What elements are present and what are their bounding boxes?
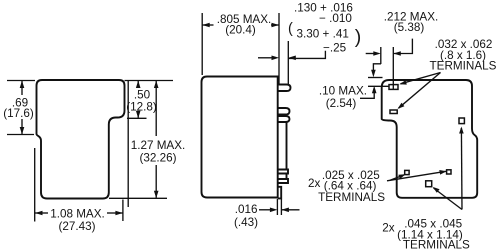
left figure 1.27 down arrowhead [154, 191, 159, 199]
right figure .045 leader 1 [434, 188, 463, 210]
svg-text:TERMINALS: TERMINALS [403, 238, 470, 251]
right figure .032 leader 2 [399, 73, 441, 109]
right figure .10 up arrow stem [360, 92, 374, 98]
left figure .69 bottom extension line [7, 134, 34, 136]
right figure .10 top extension line [368, 77, 383, 79]
left figure 1.27 dim line upper [155, 81, 157, 136]
right figure .032 arrowhead 2 [398, 103, 405, 109]
svg-text:2x: 2x [308, 177, 321, 190]
left figure .50 down arrowhead [136, 111, 141, 119]
right figure .212 left extension line [380, 47, 382, 64]
middle figure .805 left arrow tail [202, 24, 213, 26]
right figure .212 left arrowhead [373, 51, 381, 56]
left figure 1.08 right arrowhead [115, 211, 123, 216]
svg-text:1.08 MAX.: 1.08 MAX. [50, 207, 105, 220]
right figure .045 arrowhead 1 [433, 187, 440, 193]
svg-text:(32.26): (32.26) [139, 152, 176, 165]
left figure .50 bottom extension line [127, 117, 147, 119]
left figure .50 up arrow stem [137, 81, 139, 88]
middle figure .016 right arrowhead [281, 208, 289, 213]
middle figure .805 right arrowhead [272, 23, 280, 28]
left figure 1.27 up arrowhead [154, 81, 159, 89]
right figure .045 leader 2 [460, 128, 463, 210]
svg-text:): ) [355, 26, 362, 48]
right figure .212 right arrowhead [393, 51, 401, 56]
middle figure .130 left arrowhead [272, 56, 280, 61]
middle figure .016 right arrow tail [281, 209, 299, 211]
svg-text:(5.38): (5.38) [394, 21, 425, 34]
middle figure .130 right arrowhead [288, 56, 296, 61]
svg-text:.016: .016 [235, 203, 258, 216]
middle figure .130 right extension line [287, 41, 289, 84]
left figure 1.08 left extension line [34, 148, 36, 222]
left figure .50 down arrow stem [137, 113, 139, 118]
middle figure terminal T1 [278, 85, 291, 92]
svg-text:3.30 + .41: 3.30 + .41 [297, 28, 349, 41]
svg-text:−.25: −.25 [323, 41, 347, 54]
right figure terminal F (.045) [459, 118, 464, 124]
right figure .10 up arrowhead [372, 86, 377, 94]
right figure .10 down arrow stem [373, 64, 381, 70]
svg-text:TERMINALS: TERMINALS [430, 59, 497, 72]
right figure .045 arrowhead 2 [459, 127, 464, 134]
left figure .69 up arrowhead [20, 81, 25, 89]
middle figure .805 right extension line [278, 13, 280, 84]
svg-text:1.27 MAX.: 1.27 MAX. [131, 139, 186, 152]
left figure 1.08 dim line left [35, 212, 48, 214]
middle figure terminal T5 [278, 179, 288, 183]
right figure .10 down arrowhead [371, 70, 376, 78]
left figure 1.08 left arrowhead [35, 211, 43, 216]
right figure .025 arrowhead 1 [398, 174, 405, 179]
right figure terminal E (.045) [426, 181, 432, 187]
middle figure body outline [202, 77, 278, 198]
svg-text:(.43): (.43) [234, 216, 258, 229]
left figure .69 top extension line [7, 80, 35, 82]
left figure .69 down arrowhead [20, 127, 25, 135]
left figure 1.27 dim line lower [155, 165, 157, 198]
left figure vertical extension between figures [127, 81, 129, 208]
left figure .69 down arrow stem [21, 119, 23, 134]
svg-text:(: ( [288, 21, 293, 37]
svg-text:(12.8): (12.8) [126, 100, 157, 113]
left figure top extension line right [125, 80, 174, 82]
middle figure mounting foot [278, 187, 282, 199]
left figure 1.08 dim line right [107, 212, 123, 214]
right figure .212 right extension line [392, 47, 394, 89]
middle figure .016 right extension line [280, 199, 282, 215]
middle figure .130 left arrow tail [258, 57, 272, 59]
right figure .10 bottom extension line [368, 85, 389, 87]
middle figure terminal strip [286, 122, 288, 170]
right figure .025 leader [387, 171, 446, 181]
right figure terminal C (.025) [405, 170, 409, 174]
middle figure .805 right arrow tail [271, 24, 279, 26]
svg-text:TERMINALS: TERMINALS [318, 191, 385, 204]
middle figure .016 left extension line [276, 199, 278, 215]
svg-text:2x: 2x [382, 222, 395, 235]
left figure body outline [37, 80, 125, 199]
right figure .212 right arrow tail [393, 39, 412, 54]
right figure .032 leader 1 [401, 73, 441, 84]
middle figure .130 leader tail [288, 51, 325, 59]
svg-text:− .010: − .010 [319, 12, 352, 25]
middle figure terminal T3 [278, 116, 290, 122]
right figure terminal B (.032) [390, 110, 397, 114]
right figure .032 arrowhead 1 [399, 80, 406, 84]
middle figure .805 left extension line [201, 13, 203, 75]
left figure 1.08 right extension line [122, 200, 124, 222]
middle figure .016 left arrowhead [270, 208, 278, 213]
middle figure terminal T4 [278, 170, 288, 174]
right figure terminal D (.025) [447, 170, 451, 174]
middle figure terminal T2 [278, 108, 290, 115]
middle figure terminal strip lower [286, 174, 288, 180]
left figure .50 up arrowhead [136, 81, 141, 89]
middle figure .016 left arrow tail [259, 209, 270, 211]
left figure .69 up arrow stem [21, 81, 23, 95]
right figure body outline [382, 80, 478, 198]
middle figure .805 left arrowhead [202, 23, 210, 28]
right figure .212 left arrow tail [366, 53, 374, 55]
right figure .025 arrowhead 2 [439, 170, 446, 175]
svg-text:(2.54): (2.54) [326, 97, 357, 110]
svg-text:(27.43): (27.43) [58, 220, 95, 233]
svg-text:(17.6): (17.6) [3, 107, 34, 120]
svg-text:(20.4): (20.4) [225, 24, 256, 37]
right figure terminal A (.032) [389, 85, 398, 90]
svg-text:.10 MAX.: .10 MAX. [319, 85, 367, 98]
left figure 1.27 bottom extension line [109, 197, 167, 199]
